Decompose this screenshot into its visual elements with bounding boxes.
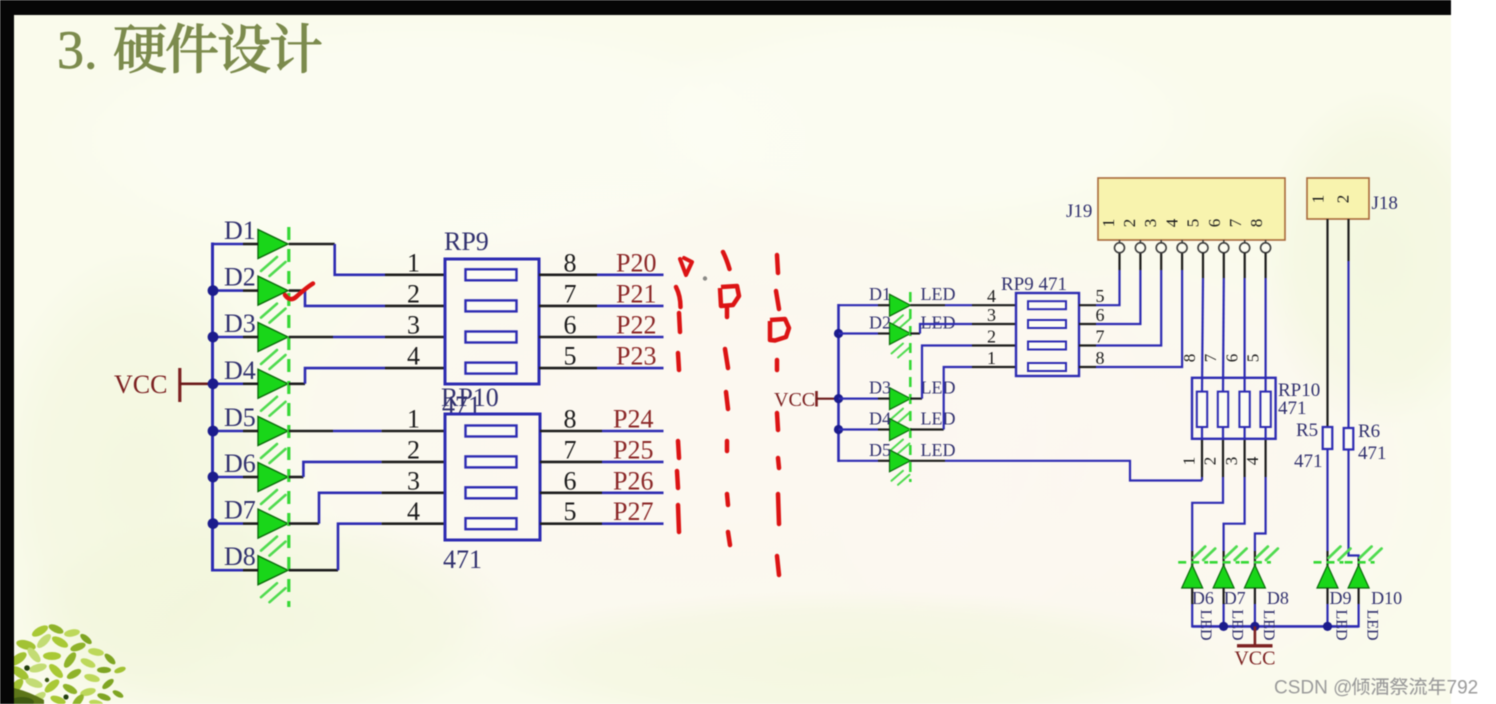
junction dots right bus xyxy=(834,329,843,434)
wire VCC bus left xyxy=(211,243,214,572)
RP10r resistor element 2 xyxy=(1218,392,1228,427)
wire RP10 pin 7 to P25 xyxy=(540,461,602,464)
wire R6 to D10 xyxy=(1349,450,1359,567)
svg-text:LED: LED xyxy=(1333,609,1350,640)
red annotation letter D 2 xyxy=(770,319,789,341)
svg-text:D8: D8 xyxy=(224,542,256,571)
svg-text:P24: P24 xyxy=(613,405,653,434)
title 硬件设计 glyphs xyxy=(114,23,321,73)
svg-text:P27: P27 xyxy=(613,497,653,526)
LED D6 xyxy=(1182,565,1203,588)
svg-text:LED: LED xyxy=(1197,609,1214,640)
red dashed column 1 xyxy=(677,313,680,532)
svg-text:8: 8 xyxy=(1247,219,1266,228)
RP9 resistor element 1 xyxy=(466,269,517,280)
wire D4 to RP9 pin4 xyxy=(213,368,386,384)
svg-text:2: 2 xyxy=(407,435,420,464)
RP10r resistor element 3 xyxy=(1239,392,1249,427)
LED D1 hatch arrows xyxy=(261,257,286,276)
LED D3 right xyxy=(890,388,911,410)
svg-text:D2: D2 xyxy=(224,263,256,292)
svg-text:D2: D2 xyxy=(869,313,891,333)
svg-text:D4: D4 xyxy=(224,356,256,385)
svg-text:3: 3 xyxy=(407,466,420,495)
svg-text:D7: D7 xyxy=(224,496,256,525)
wire D3 to RP9 pin3 xyxy=(213,336,386,339)
svg-text:LED: LED xyxy=(1260,609,1277,640)
svg-text:RP10: RP10 xyxy=(441,383,499,412)
svg-text:6: 6 xyxy=(564,466,577,495)
svg-text:LED: LED xyxy=(921,284,956,304)
svg-text:RP9 471: RP9 471 xyxy=(1001,274,1067,295)
svg-text:P23: P23 xyxy=(616,342,656,371)
svg-text:4: 4 xyxy=(407,497,420,526)
svg-text:CSDN @: CSDN @ xyxy=(1274,678,1352,699)
svg-text:8: 8 xyxy=(564,405,577,434)
svg-text:D5: D5 xyxy=(869,440,891,460)
watermark CSDN xyxy=(1274,677,1478,698)
LED D7 xyxy=(258,509,288,538)
black left bar xyxy=(0,0,14,704)
RP9r resistor element 4 xyxy=(1028,363,1066,371)
LED D6 hatch xyxy=(1193,547,1215,561)
LED D8 xyxy=(258,556,288,585)
svg-text:1: 1 xyxy=(1099,219,1118,228)
svg-text:2: 2 xyxy=(407,279,420,308)
white right margin xyxy=(1451,0,1496,704)
wire D6 to RP10 pin2 xyxy=(213,462,382,477)
svg-text:D4: D4 xyxy=(869,409,891,429)
svg-text:3: 3 xyxy=(987,305,996,325)
svg-text:2: 2 xyxy=(1201,457,1220,466)
RP9 resistor element 2 xyxy=(466,300,517,311)
wire D9 to bottom bus xyxy=(1326,588,1328,628)
LED D2 hatch arrows xyxy=(261,304,286,323)
svg-text:1: 1 xyxy=(407,405,420,434)
LED D5 xyxy=(258,417,288,446)
wire step RP10 col2 to D6 xyxy=(1192,477,1223,566)
svg-text:3: 3 xyxy=(1141,219,1160,228)
svg-text:D9: D9 xyxy=(1330,588,1352,608)
wire RP9r pin8 to J19 pin4 xyxy=(1079,366,1096,368)
wire step RP10 col4 to D8 xyxy=(1255,477,1266,566)
red annotation check mark on D2 xyxy=(285,284,313,300)
wire RP9r pin7 to J19 pin3 xyxy=(1079,344,1096,346)
svg-text:3: 3 xyxy=(1222,457,1241,466)
LED D8 hatch arrows xyxy=(261,583,286,602)
wire D10 to bottom bus xyxy=(1357,588,1359,628)
wire RP9 pin 7 to P21 xyxy=(539,305,597,308)
svg-text:1: 1 xyxy=(1180,457,1199,466)
LED D5 hatch arrows xyxy=(261,444,286,463)
svg-text:LED: LED xyxy=(921,313,956,333)
svg-text:D3: D3 xyxy=(869,378,891,398)
wire J19 pin6 down through RP10 r2 xyxy=(1222,253,1225,477)
resistor R5 xyxy=(1323,427,1333,449)
wire D5 to RP10 pin1 xyxy=(213,430,382,433)
wire D7 to RP10 pin3 xyxy=(213,493,382,524)
junction dots bottom bus xyxy=(1219,622,1332,631)
wire D1 to RP9 pin1 xyxy=(213,244,386,275)
svg-text:471: 471 xyxy=(1358,443,1387,464)
connector J18 box xyxy=(1307,178,1369,219)
LED D9 hatch xyxy=(1329,547,1351,561)
LED D2 right xyxy=(890,323,911,345)
bottom bus wire xyxy=(1192,625,1358,628)
red annotation tick xyxy=(723,252,730,269)
svg-text:8: 8 xyxy=(1180,354,1199,363)
wire D7 to bottom bus xyxy=(1222,588,1224,628)
svg-text:D1: D1 xyxy=(224,216,256,245)
LED D7 xyxy=(1213,565,1234,588)
red annotation letter D 1 xyxy=(720,286,739,306)
svg-text:6: 6 xyxy=(1223,354,1242,363)
svg-text:471: 471 xyxy=(1294,451,1323,472)
LED D5 right hatch xyxy=(892,471,910,485)
wire J19 pin8 down through RP10 r4 xyxy=(1264,253,1266,477)
svg-text:RP9: RP9 xyxy=(444,227,489,256)
svg-text:VCC: VCC xyxy=(1234,648,1275,670)
svg-text:8: 8 xyxy=(1096,348,1105,368)
svg-text:D1: D1 xyxy=(869,284,891,304)
LED D4 right hatch xyxy=(892,440,910,454)
wire RP10 pin2 to D6 xyxy=(1201,477,1203,481)
RP10 resistor element 1 xyxy=(466,426,517,437)
LED D3 xyxy=(258,323,288,352)
LED D8 xyxy=(1244,565,1265,588)
svg-text:D3: D3 xyxy=(224,309,256,338)
svg-text:2: 2 xyxy=(1334,195,1353,204)
svg-text:D10: D10 xyxy=(1371,588,1402,608)
svg-text:D6: D6 xyxy=(224,449,256,478)
LED D9 cathode dashed xyxy=(1314,561,1344,564)
LED D3 right hatch xyxy=(892,409,910,423)
wire J19 pin7 down through RP10 r3 xyxy=(1243,253,1245,477)
wire D1r to RP9r pin4 xyxy=(839,304,973,306)
svg-text:3.: 3. xyxy=(57,20,98,80)
junction dots on left bus xyxy=(208,285,219,529)
wire D8 to bottom bus xyxy=(1254,588,1256,628)
svg-text:7: 7 xyxy=(1226,218,1245,227)
svg-text:5: 5 xyxy=(564,342,577,371)
LED D9 xyxy=(1317,565,1338,588)
svg-text:J19: J19 xyxy=(1066,201,1092,222)
svg-text:7: 7 xyxy=(1201,353,1220,362)
wire D2r to RP9r pin3 xyxy=(839,324,973,334)
RP9r resistor element 3 xyxy=(1028,342,1066,350)
wire J18 pin2 to R6 xyxy=(1347,219,1349,428)
resistor pack RP10 xyxy=(445,414,540,540)
svg-text:J18: J18 xyxy=(1372,193,1398,214)
svg-text:P26: P26 xyxy=(613,466,653,495)
wire D5r to RP10 pin1 xyxy=(839,461,1203,481)
svg-text:R5: R5 xyxy=(1296,420,1318,441)
svg-text:D5: D5 xyxy=(224,403,256,432)
gray speck xyxy=(703,276,707,280)
RP9 resistor element 3 xyxy=(466,332,517,343)
svg-text:5: 5 xyxy=(1244,354,1263,363)
svg-text:4: 4 xyxy=(1243,456,1262,465)
LED D7 hatch xyxy=(1225,547,1247,561)
power VCC right xyxy=(774,389,837,411)
LED D1 right xyxy=(890,294,911,316)
svg-text:LED: LED xyxy=(921,409,956,429)
svg-text:P20: P20 xyxy=(616,248,656,277)
red annotation scribble v xyxy=(680,258,692,275)
svg-text:2: 2 xyxy=(987,327,996,347)
svg-text:5: 5 xyxy=(564,497,577,526)
svg-text:VCC: VCC xyxy=(114,370,167,399)
RP9r resistor element 1 xyxy=(1028,301,1066,309)
resistor pack RP10 right box xyxy=(1192,378,1276,439)
RP10 resistor element 3 xyxy=(466,487,517,498)
red dashed column 2 xyxy=(725,306,730,545)
LED cathode dashed line right column xyxy=(909,292,912,482)
red dashed column 3 xyxy=(776,255,779,575)
svg-text:6: 6 xyxy=(1205,219,1224,228)
LED D4 xyxy=(258,369,288,398)
wire RP10 pin 8 to P24 xyxy=(540,430,602,433)
svg-text:4: 4 xyxy=(987,286,996,306)
LED D2 right hatch xyxy=(892,344,910,358)
black top bar xyxy=(0,0,1451,15)
wire VCC bus right xyxy=(837,304,840,462)
LED D7 cathode dashed xyxy=(1210,561,1240,564)
svg-text:7: 7 xyxy=(1096,327,1105,347)
svg-text:7: 7 xyxy=(564,279,577,308)
svg-text:P21: P21 xyxy=(616,279,656,308)
LED D5 right xyxy=(890,450,911,472)
wire RP9 pin 6 to P22 xyxy=(539,336,597,339)
svg-text:5: 5 xyxy=(1184,219,1203,228)
svg-text:P25: P25 xyxy=(613,435,653,464)
svg-text:1: 1 xyxy=(987,348,996,368)
connector J19 box xyxy=(1098,178,1285,240)
svg-text:471: 471 xyxy=(443,545,482,574)
J19 pin numbers 1-8 xyxy=(1099,218,1266,227)
LED D6 cathode dashed xyxy=(1178,561,1208,564)
svg-text:3: 3 xyxy=(407,311,420,340)
RP10 resistor element 2 xyxy=(466,456,517,467)
LED D10 xyxy=(1348,565,1369,588)
RP10 resistor element 4 xyxy=(466,518,517,529)
RP9r resistor element 2 xyxy=(1028,320,1066,328)
svg-text:VCC: VCC xyxy=(774,389,815,411)
LED cathode dashed line left column xyxy=(287,227,290,607)
wire D6 to bottom bus xyxy=(1191,588,1193,628)
wire J18 pin1 to R5 xyxy=(1326,219,1328,427)
svg-text:2: 2 xyxy=(1120,219,1139,228)
svg-text:6: 6 xyxy=(564,311,577,340)
LED D8 hatch xyxy=(1256,547,1278,561)
wire RP9 pin 5 to P23 xyxy=(539,367,597,370)
RP9 resistor element 4 xyxy=(466,363,517,374)
svg-text:792: 792 xyxy=(1447,678,1479,699)
svg-text:LED: LED xyxy=(921,378,956,398)
svg-text:LED: LED xyxy=(1364,609,1381,640)
decorative leaves bottom-left xyxy=(6,622,126,704)
LED D6 xyxy=(258,463,288,492)
wire step RP10 col3 to D7 xyxy=(1224,477,1245,566)
svg-text:4: 4 xyxy=(407,342,420,371)
wire J19 pin5 down through RP10 r1 xyxy=(1202,253,1203,477)
svg-text:1: 1 xyxy=(1309,195,1328,204)
J19 pin circles xyxy=(1115,240,1271,253)
LED D3 hatch arrows xyxy=(261,350,286,369)
wire D8 to RP10 pin4 xyxy=(213,524,382,571)
LED D10 cathode dashed xyxy=(1345,561,1375,564)
wire RP10 pin 5 to P27 xyxy=(540,522,602,525)
wire R5 to D9 xyxy=(1326,449,1328,566)
svg-text:7: 7 xyxy=(564,435,577,464)
wire D2 to RP9 pin2 xyxy=(213,291,386,306)
LED D2 xyxy=(258,276,288,305)
svg-text:5: 5 xyxy=(1096,286,1105,306)
resistor pack RP9 xyxy=(445,259,539,384)
LED D1 xyxy=(258,230,288,259)
svg-text:8: 8 xyxy=(564,248,577,277)
LED D6 hatch arrows xyxy=(261,490,286,509)
J18 pin numbers xyxy=(1309,195,1353,204)
LED D8 cathode dashed xyxy=(1241,561,1271,564)
wire D4r to RP9r pin1 xyxy=(839,367,973,430)
wire D3r to RP9r pin2 xyxy=(839,346,973,399)
wire RP9 pin 8 to P20 xyxy=(539,273,597,276)
LED D4 right xyxy=(890,419,911,441)
svg-text:4: 4 xyxy=(1162,218,1181,227)
svg-text:D6: D6 xyxy=(1192,588,1214,608)
RP10r resistor element 1 xyxy=(1197,392,1207,427)
LED D1 right hatch xyxy=(892,315,910,329)
svg-text:D8: D8 xyxy=(1267,588,1289,608)
resistor R6 xyxy=(1344,428,1354,450)
svg-text:471: 471 xyxy=(1278,398,1307,419)
resistor pack RP9 right xyxy=(1016,293,1079,376)
power VCC bottom xyxy=(1234,626,1275,669)
svg-text:1: 1 xyxy=(407,248,420,277)
wire RP9r pin6 to J19 pin2 xyxy=(1079,323,1096,325)
LED D10 hatch xyxy=(1360,547,1382,561)
wire RP10 pin 6 to P26 xyxy=(540,491,602,494)
red annotation stroke xyxy=(676,287,681,307)
svg-text:LED: LED xyxy=(1229,609,1246,640)
svg-text:LED: LED xyxy=(921,440,956,460)
wire RP9r pin5 to J19 pin1 xyxy=(1079,304,1096,306)
power VCC left xyxy=(114,368,209,402)
LED D4 hatch arrows xyxy=(261,397,286,416)
LED D7 hatch arrows xyxy=(261,537,286,556)
svg-text:D7: D7 xyxy=(1224,588,1246,608)
svg-text:R6: R6 xyxy=(1358,421,1380,442)
svg-text:P22: P22 xyxy=(616,311,656,340)
RP10r resistor element 4 xyxy=(1260,392,1270,427)
svg-text:6: 6 xyxy=(1096,305,1105,325)
